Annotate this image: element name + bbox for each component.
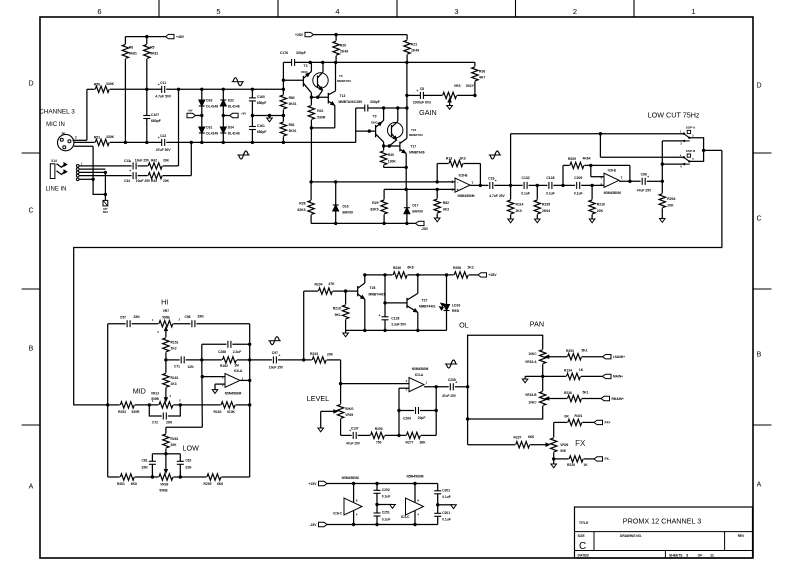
transistor T9 base wire bbox=[356, 130, 376, 132]
svg-text:SIZE: SIZE bbox=[578, 534, 585, 538]
svg-text:OL: OL bbox=[459, 321, 469, 330]
signal marker sine at IC3-A bbox=[445, 363, 457, 365]
svg-text:R261: R261 bbox=[171, 437, 179, 441]
svg-text:R209: R209 bbox=[568, 157, 576, 161]
resistor R162 bbox=[221, 402, 235, 408]
svg-text:R42: R42 bbox=[151, 158, 157, 162]
svg-text:0R: 0R bbox=[564, 414, 569, 418]
wire mid band line bbox=[166, 359, 180, 361]
svg-text:1: 1 bbox=[691, 7, 695, 16]
capacitor C128 bbox=[384, 275, 386, 317]
svg-text:7: 7 bbox=[472, 181, 474, 185]
svg-text:R253: R253 bbox=[566, 349, 574, 353]
svg-text:0.1uF: 0.1uF bbox=[574, 191, 583, 195]
svg-text:CHANNEL 3: CHANNEL 3 bbox=[39, 109, 75, 116]
svg-text:SHEETS: SHEETS bbox=[669, 554, 683, 558]
potentiometer VR13 bbox=[159, 402, 173, 408]
svg-text:DL4148: DL4148 bbox=[228, 105, 240, 109]
svg-text:C97: C97 bbox=[272, 351, 278, 355]
wire to IC3-A pin3 bbox=[341, 383, 409, 385]
svg-text:N5M4580M: N5M4580M bbox=[457, 194, 474, 198]
svg-text:C289: C289 bbox=[354, 100, 362, 104]
svg-text:N5M4580M: N5M4580M bbox=[604, 191, 621, 195]
resistor R237 bbox=[516, 442, 530, 448]
wire pan box bbox=[468, 335, 543, 387]
svg-text:5K1: 5K1 bbox=[582, 390, 588, 394]
feedback riser from C209 node bbox=[562, 165, 564, 185]
svg-text:5: 5 bbox=[216, 7, 220, 16]
svg-text:3K3: 3K3 bbox=[443, 208, 449, 212]
svg-text:VR33-B: VR33-B bbox=[525, 393, 537, 397]
svg-text:C208: C208 bbox=[448, 378, 456, 382]
svg-text:VR7: VR7 bbox=[163, 309, 169, 313]
svg-text:X14: X14 bbox=[51, 159, 57, 163]
wire T3 base column bbox=[282, 62, 284, 89]
transistor T3 bbox=[283, 79, 303, 81]
feedback wire to R13 bbox=[436, 164, 438, 182]
svg-text:R36: R36 bbox=[479, 70, 485, 74]
svg-text:R51: R51 bbox=[94, 136, 100, 140]
svg-text:DL4148: DL4148 bbox=[206, 105, 218, 109]
title block bbox=[575, 507, 753, 558]
svg-text:R281: R281 bbox=[117, 482, 125, 486]
resistor R6 bbox=[124, 37, 126, 44]
wire pin5 rail bbox=[384, 188, 455, 190]
svg-text:C57: C57 bbox=[120, 316, 126, 320]
resistor R134 bbox=[543, 375, 566, 377]
svg-text:-15V: -15V bbox=[309, 523, 317, 527]
svg-text:2K49: 2K49 bbox=[340, 50, 348, 54]
capacitor C34 bbox=[132, 172, 134, 179]
svg-text:VR39: VR39 bbox=[160, 483, 168, 487]
wire cold line riser to C289 bbox=[355, 108, 357, 142]
resistor R36 bbox=[474, 62, 476, 66]
op-amp IC6-A bbox=[225, 374, 240, 388]
wire jack sleeve bbox=[79, 178, 93, 180]
resistor R42 bbox=[138, 165, 148, 167]
svg-text:0.1uF: 0.1uF bbox=[521, 191, 530, 195]
svg-text:47uF 25V: 47uF 25V bbox=[346, 442, 361, 446]
svg-text:R236: R236 bbox=[564, 391, 572, 395]
wire -15V rail bbox=[327, 524, 438, 526]
svg-text:C12: C12 bbox=[160, 134, 166, 138]
svg-text:6: 6 bbox=[601, 175, 603, 179]
svg-text:MID: MID bbox=[133, 387, 146, 396]
svg-text:R40: R40 bbox=[388, 153, 394, 157]
resistor R80 bbox=[282, 89, 284, 94]
svg-text:D31: D31 bbox=[206, 126, 212, 130]
wire pin6 rail bbox=[311, 181, 455, 183]
resistor R234 bbox=[318, 288, 332, 294]
resistor R114 bbox=[510, 185, 512, 199]
ground below R218 bbox=[345, 330, 347, 333]
svg-text:502Y: 502Y bbox=[466, 84, 475, 88]
transistor T9 pair inner bbox=[391, 125, 393, 137]
potentiometer VR33-A bbox=[540, 350, 546, 364]
svg-text:R218: R218 bbox=[333, 307, 341, 311]
svg-text:2K2: 2K2 bbox=[467, 266, 473, 270]
svg-text:20K: 20K bbox=[667, 203, 674, 207]
svg-text:T9: T9 bbox=[373, 114, 377, 118]
svg-text:10uF 25V: 10uF 25V bbox=[135, 158, 150, 162]
svg-text:2: 2 bbox=[75, 136, 77, 140]
wire IC6-A output bbox=[240, 379, 250, 381]
svg-text:D: D bbox=[756, 83, 761, 90]
capacitor C13 bbox=[132, 162, 134, 169]
resistor R236 feedback bbox=[393, 272, 407, 278]
svg-text:500B: 500B bbox=[162, 315, 170, 319]
capacitor C202 bbox=[437, 484, 439, 491]
svg-text:680pF: 680pF bbox=[151, 119, 161, 123]
svg-text:82K5: 82K5 bbox=[297, 208, 305, 212]
svg-text:+: + bbox=[456, 188, 458, 192]
wire pin2 to spine bbox=[202, 376, 225, 378]
svg-text:N5M4580M: N5M4580M bbox=[225, 391, 242, 395]
connector MAIN+ bbox=[603, 374, 612, 378]
svg-text:680pF: 680pF bbox=[257, 101, 267, 105]
svg-text:C71: C71 bbox=[174, 364, 180, 368]
svg-text:+: + bbox=[129, 169, 131, 173]
capacitor C58 bbox=[191, 320, 193, 327]
resistor R252 bbox=[108, 404, 120, 406]
svg-text:680pF: 680pF bbox=[257, 130, 267, 134]
capacitor C269 bbox=[399, 410, 414, 412]
resistor R5 bbox=[146, 37, 148, 44]
svg-text:20pF: 20pF bbox=[418, 416, 426, 420]
transistor T17 bbox=[384, 145, 400, 147]
svg-text:0.1uF: 0.1uF bbox=[546, 191, 555, 195]
wire IC3-A output bbox=[424, 386, 449, 388]
left row tick marks bbox=[22, 152, 40, 154]
svg-text:+15V: +15V bbox=[308, 482, 317, 486]
svg-text:R277: R277 bbox=[406, 441, 414, 445]
resistor R13 bbox=[437, 163, 448, 165]
svg-text:IC6-A: IC6-A bbox=[234, 369, 243, 373]
svg-text:R43: R43 bbox=[151, 179, 157, 183]
component RP bbox=[103, 200, 108, 206]
potentiometer VR29 bbox=[337, 404, 343, 418]
resistor R226 bbox=[554, 458, 569, 460]
svg-text:C81: C81 bbox=[141, 458, 147, 462]
resistor R216 bbox=[591, 185, 593, 199]
svg-text:C18: C18 bbox=[488, 177, 494, 181]
svg-text:47uF 25V: 47uF 25V bbox=[442, 394, 457, 398]
wire fx feed bbox=[468, 444, 516, 446]
capacitor C288 bbox=[201, 344, 203, 360]
svg-text:MMBTA56: MMBTA56 bbox=[409, 133, 423, 137]
resistor R28 bbox=[308, 201, 314, 215]
svg-text:DNC: DNC bbox=[371, 120, 378, 124]
svg-text:LOW CUT 75Hz: LOW CUT 75Hz bbox=[648, 111, 700, 120]
svg-text:T27: T27 bbox=[422, 298, 428, 302]
svg-text:N5M4580M: N5M4580M bbox=[406, 475, 423, 479]
resistor R50 bbox=[95, 86, 109, 92]
wire C289 to main vertical bbox=[368, 107, 407, 109]
connector R-MAIN+ bbox=[601, 396, 610, 400]
svg-text:T17: T17 bbox=[410, 144, 416, 148]
svg-text:33N: 33N bbox=[141, 465, 148, 469]
svg-text:R41: R41 bbox=[317, 109, 323, 113]
wire +15V rail bbox=[327, 483, 438, 485]
svg-text:MMBTA06: MMBTA06 bbox=[409, 150, 424, 154]
svg-text:C251: C251 bbox=[382, 511, 390, 515]
svg-text:BAV99: BAV99 bbox=[412, 209, 423, 213]
svg-text:C161: C161 bbox=[257, 124, 265, 128]
svg-text:C13: C13 bbox=[124, 159, 130, 163]
resistor R253 bbox=[545, 356, 567, 358]
svg-text:+28V: +28V bbox=[489, 273, 498, 277]
svg-text:30K: 30K bbox=[171, 443, 178, 447]
svg-text:7: 7 bbox=[621, 176, 623, 180]
svg-text:12N: 12N bbox=[187, 365, 194, 369]
svg-text:0.1uF: 0.1uF bbox=[382, 517, 391, 521]
svg-text:LOW: LOW bbox=[183, 444, 200, 453]
ground mid left bbox=[377, 504, 393, 506]
wire jack line 3 bbox=[79, 171, 105, 173]
svg-text:GAIN: GAIN bbox=[419, 108, 437, 117]
switch SSP-A bbox=[683, 133, 685, 135]
svg-text:+: + bbox=[495, 179, 497, 183]
svg-text:FX: FX bbox=[575, 439, 586, 448]
svg-text:47uF 50V: 47uF 50V bbox=[156, 148, 172, 152]
svg-text:+8V: +8V bbox=[187, 109, 192, 113]
resistor R81 bbox=[282, 114, 285, 117]
svg-text:MMBT4401: MMBT4401 bbox=[419, 304, 436, 308]
resistor R277 bbox=[406, 432, 420, 438]
svg-text:6K8: 6K8 bbox=[528, 435, 534, 439]
svg-text:DL4148: DL4148 bbox=[206, 132, 218, 136]
svg-text:+8V: +8V bbox=[241, 112, 246, 116]
svg-text:2K49: 2K49 bbox=[411, 49, 419, 53]
transistor T9 bbox=[388, 123, 403, 138]
svg-text:TITLE: TITLE bbox=[579, 521, 589, 525]
svg-text:3: 3 bbox=[454, 7, 458, 16]
svg-text:750: 750 bbox=[376, 441, 382, 445]
svg-text:PAN: PAN bbox=[530, 320, 544, 329]
svg-text:R5: R5 bbox=[150, 46, 154, 50]
potentiometer VR26 bbox=[551, 438, 557, 452]
resistor R290 bbox=[358, 434, 370, 436]
svg-text:R81: R81 bbox=[289, 123, 295, 127]
wire feedback to IC8-E output bbox=[629, 165, 631, 181]
svg-text:6K81: 6K81 bbox=[150, 52, 158, 56]
svg-text:C: C bbox=[28, 208, 33, 215]
svg-text:920R: 920R bbox=[132, 410, 141, 414]
svg-text:FX-: FX- bbox=[605, 457, 610, 461]
transistor T3 pair circle bbox=[313, 73, 328, 88]
capacitor C208 bbox=[449, 383, 451, 390]
potentiometer VR3 GAIN bbox=[423, 94, 442, 96]
svg-text:N5M4580M: N5M4580M bbox=[342, 476, 359, 480]
diode D34 bbox=[222, 106, 224, 127]
capacitor C160 bbox=[251, 89, 253, 98]
wire C132 to C138 bbox=[529, 184, 548, 186]
wire pot bottom to C137 bbox=[340, 419, 342, 436]
svg-text:R295: R295 bbox=[204, 482, 212, 486]
svg-text:50K: 50K bbox=[560, 449, 567, 453]
potentiometer VR7 bbox=[132, 323, 159, 325]
svg-text:R234: R234 bbox=[314, 282, 322, 286]
svg-text:3K01: 3K01 bbox=[289, 102, 297, 106]
svg-text:33N: 33N bbox=[185, 465, 192, 469]
svg-text:R80: R80 bbox=[289, 96, 295, 100]
svg-text:C269: C269 bbox=[403, 417, 411, 421]
wire XLR pin1 ground bbox=[74, 145, 93, 147]
capacitor C289 bbox=[356, 107, 365, 109]
svg-text:5K1: 5K1 bbox=[335, 313, 341, 317]
svg-text:MAIN+: MAIN+ bbox=[613, 375, 623, 379]
wire hot line to T3 base column bbox=[166, 88, 283, 90]
svg-text:R21: R21 bbox=[411, 43, 417, 47]
svg-text:LINE IN: LINE IN bbox=[45, 187, 66, 193]
svg-text:3K01: 3K01 bbox=[289, 129, 297, 133]
op-amp IC3-A bbox=[409, 378, 424, 392]
svg-text:20K: 20K bbox=[327, 353, 334, 357]
svg-text:IC8-C: IC8-C bbox=[333, 512, 342, 516]
capacitor C82 bbox=[166, 453, 180, 455]
svg-text:6K8: 6K8 bbox=[407, 266, 413, 270]
svg-text:330K: 330K bbox=[106, 82, 115, 86]
resistor R40 bbox=[383, 146, 385, 150]
svg-text:FX+: FX+ bbox=[605, 421, 611, 425]
svg-text:R114: R114 bbox=[516, 203, 524, 207]
svg-text:C8: C8 bbox=[420, 87, 424, 91]
resistor R21 bbox=[406, 35, 408, 40]
svg-text:600: 600 bbox=[103, 210, 108, 214]
connector J4 XLR bbox=[57, 134, 73, 150]
svg-text:B: B bbox=[757, 352, 762, 359]
capacitor C209 bbox=[576, 182, 578, 189]
svg-text:+28V: +28V bbox=[295, 33, 304, 37]
resistor R295 bbox=[207, 474, 221, 480]
resistor R51 bbox=[95, 139, 109, 145]
svg-text:SSP-B: SSP-B bbox=[686, 149, 696, 153]
svg-text:R50: R50 bbox=[94, 83, 100, 87]
svg-text:C160: C160 bbox=[257, 95, 265, 99]
node +48V supply wire bbox=[125, 36, 165, 38]
capacitor C11 bbox=[161, 86, 163, 93]
connector FX+ bbox=[594, 420, 603, 424]
svg-text:R252: R252 bbox=[118, 410, 126, 414]
svg-text:C209: C209 bbox=[574, 176, 582, 180]
svg-text:R162: R162 bbox=[214, 410, 222, 414]
resistor R41 bbox=[310, 97, 312, 105]
wire XLR pin2 to R50 bbox=[73, 139, 87, 141]
wire R233 corner to level pot bbox=[340, 360, 342, 404]
resistor R161 bbox=[163, 373, 169, 387]
signal marker sine below cold line bbox=[237, 154, 249, 156]
svg-text:R233: R233 bbox=[310, 352, 318, 356]
resistor R261 bbox=[163, 434, 169, 448]
wire T17 emitter down bbox=[405, 153, 407, 189]
wire R13 to output bbox=[479, 164, 481, 186]
svg-text:B: B bbox=[29, 346, 34, 353]
wire C97 to R233 bbox=[278, 359, 312, 361]
wire top rail to R36 bbox=[295, 61, 475, 63]
svg-text:33N: 33N bbox=[197, 315, 204, 319]
svg-text:6K81: 6K81 bbox=[129, 52, 137, 56]
svg-text:20N: 20N bbox=[166, 420, 173, 424]
wire hot line to C11 bbox=[110, 88, 162, 90]
resistor R281 bbox=[108, 476, 120, 478]
svg-text:MIC IN: MIC IN bbox=[46, 122, 65, 128]
wire IC8-B output bbox=[470, 184, 488, 186]
svg-text:R226: R226 bbox=[567, 463, 575, 467]
svg-text:11: 11 bbox=[710, 554, 714, 558]
svg-text:R182: R182 bbox=[220, 364, 228, 368]
svg-text:0.1uF: 0.1uF bbox=[442, 518, 451, 522]
svg-text:4.7uF 50V: 4.7uF 50V bbox=[155, 95, 172, 99]
svg-text:R28: R28 bbox=[299, 202, 305, 206]
transistor T13 bbox=[327, 93, 329, 104]
transistor T28 bbox=[346, 290, 358, 292]
svg-text:R204: R204 bbox=[667, 197, 675, 201]
svg-text:R401: R401 bbox=[575, 414, 583, 418]
resistor R401 bbox=[554, 421, 568, 423]
svg-text:C: C bbox=[579, 541, 586, 552]
svg-text:2K2: 2K2 bbox=[171, 347, 177, 351]
svg-text:RED: RED bbox=[452, 309, 460, 313]
capacitor C252 bbox=[376, 484, 378, 491]
svg-text:IC8-E: IC8-E bbox=[608, 169, 617, 173]
svg-text:REV: REV bbox=[738, 534, 745, 538]
svg-text:1K: 1K bbox=[583, 463, 588, 467]
svg-text:T3: T3 bbox=[304, 64, 308, 68]
svg-text:1M: 1M bbox=[234, 363, 239, 367]
svg-text:82K5: 82K5 bbox=[370, 208, 378, 212]
signal marker sine at IC8-B bbox=[489, 154, 501, 156]
svg-text:A: A bbox=[757, 482, 762, 489]
wire C208 to pan node bbox=[455, 386, 468, 388]
svg-text:R290: R290 bbox=[375, 427, 383, 431]
svg-text:+: + bbox=[416, 89, 418, 93]
wire mic cold line bbox=[74, 141, 95, 143]
wire lowcut feed riser bbox=[510, 134, 512, 186]
diode D33 bbox=[201, 89, 203, 100]
svg-text:6K8: 6K8 bbox=[217, 482, 223, 486]
wire C71 to spine bbox=[186, 359, 202, 361]
wire OL bottom rail bbox=[346, 329, 447, 331]
switch SSP-B bbox=[683, 156, 685, 158]
svg-text:2K64: 2K64 bbox=[542, 209, 550, 213]
svg-text:J4: J4 bbox=[61, 132, 65, 136]
capacitor C201 bbox=[437, 505, 439, 514]
wire jack line 4 bbox=[79, 175, 132, 177]
svg-text:VR33-A: VR33-A bbox=[525, 360, 537, 364]
capacitor C81 bbox=[152, 453, 166, 455]
resistor R43 bbox=[138, 175, 148, 177]
right row tick marks bbox=[753, 152, 772, 154]
wire switch common bbox=[689, 138, 703, 162]
svg-text:20K: 20K bbox=[163, 179, 170, 183]
svg-text:C288: C288 bbox=[218, 350, 226, 354]
svg-text:C128: C128 bbox=[391, 316, 399, 320]
connector +48V bbox=[166, 34, 175, 38]
svg-text:10uF 25V: 10uF 25V bbox=[269, 365, 284, 369]
svg-text:0.1uF: 0.1uF bbox=[382, 495, 391, 499]
LED LD16 bbox=[446, 275, 448, 305]
svg-text:R237: R237 bbox=[514, 436, 522, 440]
diode D32 bbox=[222, 89, 224, 100]
svg-text:C96: C96 bbox=[641, 173, 647, 177]
svg-text:R20: R20 bbox=[340, 44, 346, 48]
capacitor C137 bbox=[352, 432, 354, 439]
svg-text:+: + bbox=[278, 353, 280, 357]
svg-text:C72: C72 bbox=[152, 420, 158, 424]
capacitor C251 bbox=[376, 505, 378, 514]
svg-text:20K: 20K bbox=[597, 209, 604, 213]
svg-text:DNC: DNC bbox=[301, 70, 308, 74]
